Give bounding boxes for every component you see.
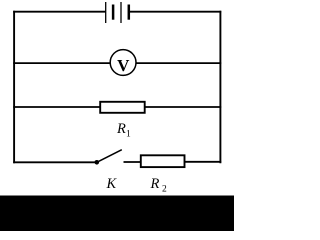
switch K blade: [97, 150, 122, 163]
wire top-left segment: [13, 11, 105, 13]
svg-text:R: R: [116, 121, 126, 137]
wire R1-row left segment: [13, 106, 101, 108]
wire R2-to-right segment: [185, 161, 222, 163]
wire switch-to-R2 segment: [124, 161, 142, 163]
wire voltmeter-row right segment: [136, 62, 221, 64]
svg-text:V: V: [117, 56, 130, 75]
wire bottom-row left segment: [13, 161, 96, 163]
voltmeter V1 label V: [117, 56, 130, 75]
battery B1 long plate 2: [120, 2, 122, 23]
svg-text:2: 2: [162, 185, 167, 195]
bottom black band (image crop): [0, 196, 234, 232]
battery B1 short thick plate 2: [128, 5, 131, 20]
resistor R2 body: [141, 155, 185, 167]
wire R1-row right segment: [144, 106, 221, 108]
switch K label: [106, 176, 118, 192]
resistor R1 label: [116, 121, 131, 140]
svg-text:R: R: [150, 176, 160, 192]
wire left vertical bus: [13, 11, 15, 163]
svg-text:1: 1: [126, 130, 131, 140]
battery B1 long plate 1: [105, 2, 107, 23]
svg-text:K: K: [106, 176, 118, 192]
wire voltmeter-row left segment: [13, 62, 110, 64]
resistor R2 label: [150, 176, 168, 195]
resistor R1 body: [100, 102, 145, 113]
wire top-right segment: [129, 11, 221, 13]
voltmeter V1 body: [110, 50, 136, 76]
switch K pivot junction: [95, 160, 100, 165]
wire right vertical bus: [219, 11, 221, 163]
battery B1 short thick plate 1: [112, 5, 115, 20]
